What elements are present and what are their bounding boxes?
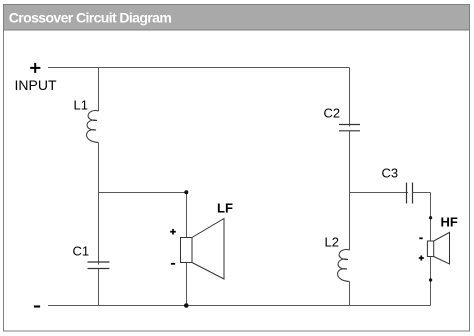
- wire top horizontal from + to C2 branch: [48, 67, 350, 69]
- inductor L2: [338, 250, 350, 282]
- node junction dot top of LF branch: [184, 190, 188, 194]
- svg-text:Crossover Circuit Diagram: Crossover Circuit Diagram: [9, 9, 172, 25]
- svg-text:INPUT: INPUT: [15, 77, 57, 93]
- node - (input negative terminal): [34, 305, 40, 307]
- label + (LF positive): [170, 229, 176, 235]
- svg-text:L2: L2: [325, 235, 339, 250]
- wire LF branch horizontal: [99, 192, 187, 194]
- speaker LF: [181, 219, 225, 280]
- wire L1 branch vertical above coil: [98, 68, 100, 112]
- node junction dot bottom of LF branch: [184, 303, 189, 308]
- svg-text:LF: LF: [217, 201, 233, 216]
- wire L1 branch vertical below coil to C1: [98, 143, 100, 265]
- title bar: [4, 5, 470, 31]
- wire LF branch vertical: [186, 193, 188, 306]
- capacitor C1: [88, 262, 110, 269]
- wire bottom horizontal from - to HF branch: [48, 305, 431, 307]
- label - (LF negative): [171, 263, 175, 265]
- wire C3 branch horizontal left of plates: [350, 192, 409, 194]
- speaker HF: [427, 232, 449, 264]
- node connection dot HF bottom: [429, 278, 432, 281]
- svg-text:C1: C1: [73, 244, 90, 259]
- svg-text:L1: L1: [74, 98, 88, 113]
- wire C2 branch vertical above plates: [349, 68, 351, 127]
- wire C2 branch vertical below plates to L2: [349, 131, 351, 250]
- capacitor C3: [407, 183, 413, 204]
- svg-text:HF: HF: [441, 215, 458, 230]
- svg-text:C3: C3: [382, 166, 399, 181]
- inductor L1: [87, 111, 99, 143]
- wire C3 branch horizontal right of plates: [413, 192, 431, 194]
- node + (input positive terminal): [30, 63, 40, 73]
- wire L1 branch vertical below C1 to bottom: [98, 269, 100, 306]
- node connection dot HF top: [429, 216, 432, 219]
- label + (HF positive): [419, 256, 424, 261]
- svg-text:C2: C2: [324, 106, 341, 121]
- wire C2 branch vertical below L2 to bottom: [349, 282, 351, 306]
- wire HF branch vertical: [430, 193, 432, 306]
- label - (HF negative): [419, 237, 422, 239]
- capacitor C2: [339, 125, 360, 131]
